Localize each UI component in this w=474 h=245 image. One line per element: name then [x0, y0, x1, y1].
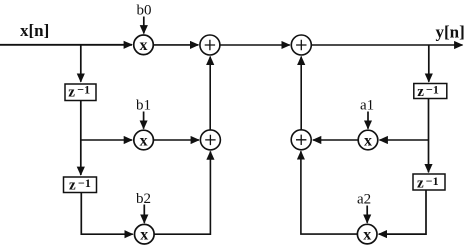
wire b0 into multiplier	[143, 17, 145, 34]
wire multiplier a1 to adder A4	[313, 139, 358, 141]
wire tap to multiplier a1	[380, 139, 429, 141]
multiplier b0 (x)	[134, 35, 154, 55]
svg-text:−1: −1	[77, 83, 90, 97]
wire multiplier b2 up to adder A3	[154, 151, 210, 234]
svg-text:−1: −1	[78, 176, 91, 190]
delay block Z4 (z^-1)	[413, 174, 445, 192]
adder A2 (+) top-right	[291, 35, 311, 55]
wire adder A2 to output y[n]	[311, 44, 462, 46]
multiplier b1 (x)	[134, 130, 154, 150]
wire tap to multiplier b1	[81, 139, 132, 141]
svg-text:y[n]: y[n]	[436, 22, 465, 41]
wire b1 into multiplier	[143, 112, 145, 129]
wire multiplier b0 to adder A1	[154, 44, 199, 46]
svg-text:x: x	[140, 37, 148, 54]
wire b2 into multiplier	[143, 205, 145, 223]
multiplier a1 (x)	[358, 130, 378, 150]
delay block Z2 (z^-1)	[64, 176, 97, 194]
wire a1 into multiplier	[367, 112, 369, 129]
wire adder A3 up to adder A1	[209, 57, 211, 130]
wire input x[n] to multiplier b0	[0, 44, 132, 46]
svg-text:b0: b0	[137, 3, 152, 19]
wire delay Z3 to delay Z4	[428, 99, 430, 173]
svg-text:−1: −1	[426, 174, 439, 188]
wire delay Z1 to delay Z2	[80, 101, 82, 176]
svg-text:a1: a1	[360, 98, 374, 114]
wire x[n] branch down to delay Z1	[80, 45, 82, 82]
svg-text:z: z	[417, 176, 424, 192]
wire y[n] branch down to delay Z3	[428, 45, 430, 82]
multiplier b2 (x)	[135, 224, 155, 244]
delay block Z1 (z^-1)	[65, 83, 96, 101]
wire a2 into multiplier	[366, 206, 368, 223]
wire delay Z2 to multiplier b2	[81, 193, 133, 235]
wire adder A1 to adder A2	[220, 44, 290, 46]
wire adder A4 up to adder A2	[300, 57, 302, 130]
delay block Z3 (z^-1)	[414, 82, 447, 100]
svg-text:z: z	[69, 178, 76, 194]
multiplier a2 (x)	[357, 224, 377, 244]
wire multiplier b1 to adder A3	[154, 139, 199, 141]
svg-text:x: x	[140, 227, 148, 244]
svg-text:−1: −1	[426, 82, 439, 96]
adder A3 (+) lower-left	[200, 130, 220, 150]
svg-text:z: z	[417, 84, 424, 100]
svg-text:x[n]: x[n]	[20, 21, 49, 40]
svg-text:b1: b1	[136, 98, 151, 114]
wire multiplier a2 up to adder A4	[301, 151, 357, 234]
adder A1 (+) top-left	[200, 35, 220, 55]
svg-text:a2: a2	[357, 192, 371, 208]
svg-text:x: x	[363, 227, 371, 244]
svg-text:x: x	[364, 133, 372, 150]
adder A4 (+) lower-right	[291, 130, 311, 150]
svg-text:x: x	[140, 132, 148, 149]
wire delay Z4 to multiplier a2	[379, 191, 426, 235]
svg-text:z: z	[68, 84, 75, 100]
